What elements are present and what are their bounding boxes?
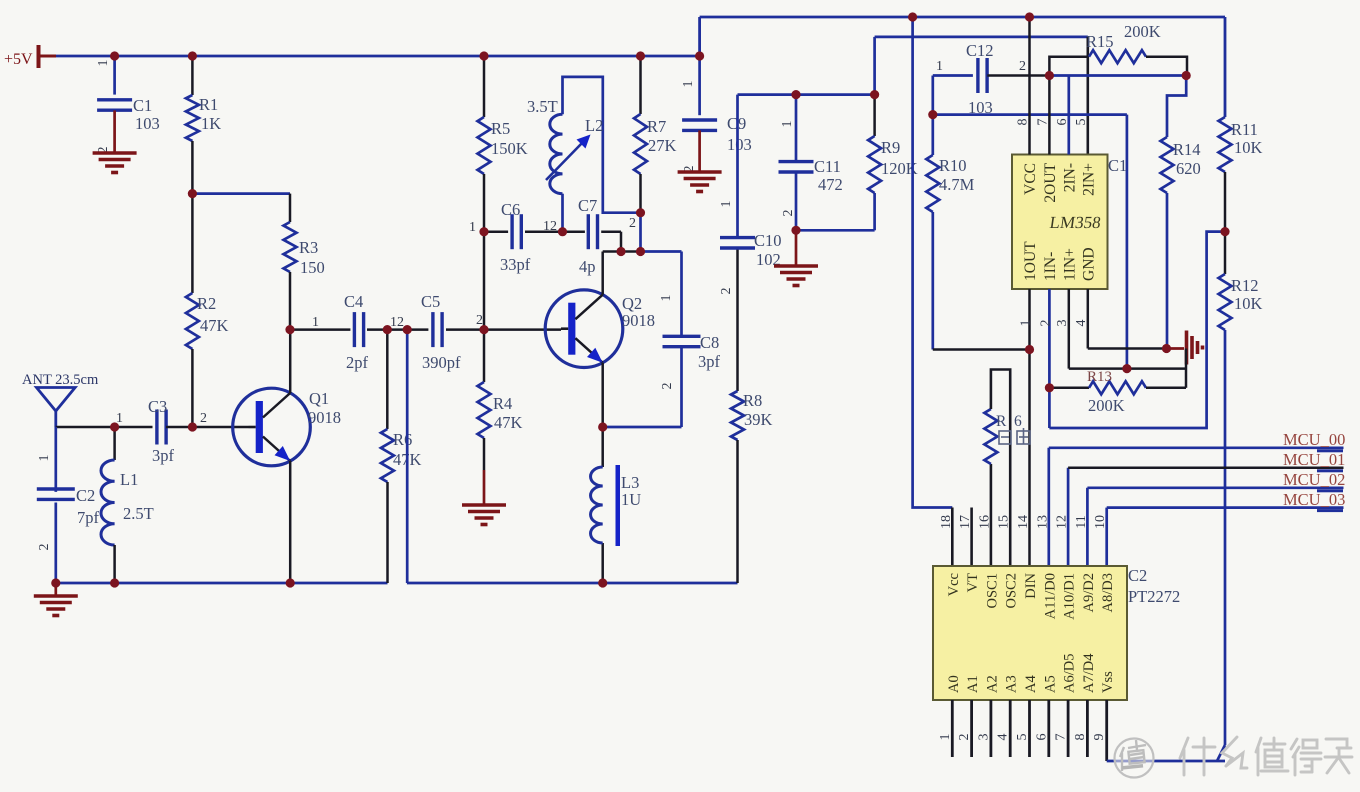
svg-text:200K: 200K (1124, 22, 1161, 41)
svg-text:14: 14 (1016, 515, 1031, 529)
svg-text:R11: R11 (1231, 120, 1258, 139)
junction at 192.4,427 (188, 422, 197, 431)
svg-text:1: 1 (780, 121, 795, 128)
resistor R1 (186, 56, 221, 194)
ground at C1 (93, 153, 137, 173)
junction at 699.6,56 (695, 51, 704, 60)
inductor L1 (101, 427, 154, 583)
junction at 407.2,329.6 (403, 325, 412, 334)
junction at 640.5,212.7 (636, 208, 645, 217)
svg-text:3: 3 (976, 734, 991, 741)
R16 value label (999, 428, 1030, 444)
svg-text:3pf: 3pf (152, 446, 175, 465)
svg-text:472: 472 (818, 175, 843, 194)
svg-text:OSC2: OSC2 (1004, 573, 1020, 608)
junction at 602.7,427 (598, 422, 607, 431)
svg-text:1U: 1U (621, 490, 641, 509)
svg-text:390pf: 390pf (422, 353, 461, 372)
junction at 192.4,193.6 (188, 189, 197, 198)
svg-text:10K: 10K (1234, 138, 1263, 157)
svg-text:47K: 47K (494, 413, 523, 432)
inductor L3 (591, 465, 642, 546)
svg-text:2: 2 (200, 411, 207, 426)
capacitor C6 (469, 200, 557, 274)
svg-text:6: 6 (1034, 734, 1049, 741)
svg-text:10: 10 (1093, 515, 1108, 529)
svg-text:C2: C2 (1128, 566, 1147, 585)
svg-text:2: 2 (957, 734, 972, 741)
junction at 796,230.3 (791, 226, 800, 235)
wire Q2 emitter (601, 363, 604, 583)
svg-text:A10/D1: A10/D1 (1062, 573, 1078, 620)
svg-text:MCU_00: MCU_00 (1283, 430, 1345, 449)
junction at 55.8,583 (51, 578, 60, 587)
svg-text:Q1: Q1 (309, 389, 329, 408)
junction at 1049.4,75.5 (1045, 71, 1054, 80)
LM358 pin 2 wire (1039, 289, 1054, 428)
svg-text:103: 103 (135, 114, 160, 133)
svg-text:1: 1 (936, 59, 943, 74)
wire Q2 collector (603, 252, 682, 295)
junction at 796,94.6 (791, 90, 800, 99)
wire ground rail left (56, 582, 388, 585)
svg-text:A9/D2: A9/D2 (1081, 573, 1097, 612)
resistor R13 (1049, 349, 1186, 416)
PT2272 pin 17 stub (970, 508, 973, 567)
svg-text:7: 7 (1054, 734, 1069, 741)
svg-text:DIN: DIN (1023, 572, 1039, 598)
PT2272 pin 11 wire / net MCU_02 (1087, 470, 1345, 566)
resistor R7 (634, 56, 677, 213)
svg-text:2IN-: 2IN- (1061, 163, 1078, 192)
ground at R4 (462, 505, 506, 525)
svg-text:2.5T: 2.5T (123, 504, 154, 523)
transistor Q1 (233, 388, 341, 466)
op-amp U1 LM358 (1012, 155, 1127, 290)
resistor R4 (478, 330, 523, 505)
LM358 pin 6 wire (1055, 76, 1070, 155)
svg-text:C4: C4 (344, 292, 363, 311)
svg-text:4.7M: 4.7M (939, 175, 975, 194)
wire R7 node down (639, 213, 642, 252)
svg-text:R12: R12 (1231, 276, 1259, 295)
wire Q2 base row (290, 328, 561, 331)
svg-text:6: 6 (1055, 119, 1070, 126)
svg-text:33pf: 33pf (500, 255, 531, 274)
wire 1IN- feedback loop (1049, 232, 1225, 428)
LM358 pin 1 wire to PT2272 DIN (1019, 289, 1034, 566)
svg-text:18: 18 (939, 515, 954, 529)
wire R5 node to base node (483, 232, 486, 330)
decoder U2 PT2272 (933, 566, 1180, 700)
svg-text:A7/D4: A7/D4 (1081, 653, 1097, 693)
LM358 pin 8 wire (1016, 17, 1031, 155)
svg-text:1: 1 (37, 455, 52, 462)
wire C11 to R9 bottom (796, 193, 875, 266)
resistor R11 (1219, 17, 1263, 232)
junction at 1049.4,387.8 (1045, 383, 1054, 392)
junction at 1166.5,348.5 (1162, 344, 1171, 353)
svg-text:150: 150 (300, 258, 325, 277)
junction at 874.6,94.6 (870, 90, 879, 99)
svg-text:2: 2 (1019, 59, 1026, 74)
svg-text:C12: C12 (966, 41, 994, 60)
svg-text:R9: R9 (881, 138, 900, 157)
svg-text:Vcc: Vcc (946, 573, 962, 596)
svg-text:103: 103 (968, 98, 993, 117)
svg-text:1: 1 (659, 295, 674, 302)
junction at 192.4,56 (188, 51, 197, 60)
svg-text:39K: 39K (744, 410, 773, 429)
svg-text:16: 16 (977, 515, 992, 529)
LM358 pin 4 wire (1074, 289, 1184, 349)
svg-text:R10: R10 (939, 156, 967, 175)
svg-text:C10: C10 (754, 231, 782, 250)
svg-text:1IN-: 1IN- (1042, 252, 1059, 281)
svg-text:27K: 27K (648, 136, 677, 155)
junction at 912.6,17 (908, 12, 917, 21)
svg-text:2: 2 (1039, 320, 1054, 327)
svg-text:R4: R4 (493, 394, 512, 413)
svg-text:C3: C3 (148, 397, 167, 416)
svg-text:R3: R3 (299, 238, 318, 257)
svg-text:VT: VT (965, 573, 981, 592)
resistor R2 (186, 194, 229, 427)
capacitor C9 (681, 56, 752, 173)
wire C12 to R15 node row (1049, 74, 1186, 77)
capacitor C5 (421, 292, 483, 372)
svg-text:GND: GND (1080, 247, 1097, 281)
capacitor C11 (779, 95, 843, 231)
svg-text:PT2272: PT2272 (1128, 587, 1180, 606)
svg-text:R6: R6 (393, 430, 412, 449)
svg-text:L2: L2 (585, 116, 603, 135)
svg-text:A3: A3 (1004, 675, 1020, 693)
svg-text:10K: 10K (1234, 294, 1263, 313)
capacitor C10 (719, 95, 782, 295)
junction at 602.7,583 (598, 578, 607, 587)
wire C6 C7 row (484, 232, 621, 252)
junction at 290.2,583 (286, 578, 295, 587)
svg-text:R13: R13 (1087, 369, 1112, 385)
svg-text:7pf: 7pf (77, 508, 100, 527)
junction at 640.5,251.5 (636, 247, 645, 256)
ground at left rail (34, 583, 78, 616)
capacitor C2 (37, 427, 100, 583)
svg-text:Vss: Vss (1100, 671, 1116, 693)
wire Q1 emitter (289, 461, 292, 583)
svg-text:C1: C1 (133, 96, 152, 115)
svg-text:1: 1 (312, 315, 319, 330)
resistor R16 (984, 370, 1022, 567)
wire R10 top row (933, 115, 1127, 369)
svg-text:1: 1 (96, 60, 111, 67)
capacitor C8 (603, 252, 721, 428)
junction at 290,329.6 (285, 325, 294, 334)
svg-text:1: 1 (469, 220, 476, 235)
wire R10 bottom to 1OUT (933, 348, 1030, 351)
ground at C9 (678, 172, 722, 192)
junction at 621,251.5 (616, 247, 625, 256)
wire C10 C11 R9 row (738, 93, 875, 96)
junction at 1029.5,349.5 (1025, 345, 1034, 354)
wire Vss to R12 (1107, 760, 1225, 763)
svg-text:1K: 1K (201, 114, 221, 133)
LM358 pin 3 wire (1055, 289, 1186, 369)
svg-text:5: 5 (1074, 119, 1089, 126)
wire R1 to R3 (192, 192, 290, 195)
svg-text:A5: A5 (1042, 675, 1058, 693)
svg-text:47K: 47K (200, 316, 229, 335)
svg-text:12: 12 (543, 219, 557, 234)
svg-text:R8: R8 (743, 391, 762, 410)
svg-text:R5: R5 (491, 119, 510, 138)
svg-text:2: 2 (719, 288, 734, 295)
junction at 1029.5,17 (1025, 12, 1034, 21)
antenna ANT 23.5cm (22, 372, 99, 427)
capacitor C4 (312, 292, 404, 372)
PT2272 pin 12 wire / net MCU_01 (1068, 450, 1345, 566)
svg-text:12: 12 (390, 315, 404, 330)
junction at 1225,231.6 (1220, 227, 1229, 236)
junction at 562.5,231.7 (558, 227, 567, 236)
wire ground rail right (407, 330, 738, 583)
svg-text:A8/D3: A8/D3 (1100, 573, 1116, 612)
wire +5V rail (56, 55, 700, 58)
svg-text:R: R (996, 413, 1007, 430)
svg-text:1IN+: 1IN+ (1061, 248, 1078, 281)
svg-text:3.5T: 3.5T (527, 97, 558, 116)
svg-text:C8: C8 (700, 333, 719, 352)
svg-text:A6/D5: A6/D5 (1062, 654, 1078, 693)
svg-text:1: 1 (681, 81, 696, 88)
watermark text (1180, 737, 1352, 775)
wire bias rail to 2IN+ (875, 37, 1088, 155)
svg-text:A11/D0: A11/D0 (1042, 573, 1058, 619)
junction at 484,56 (479, 51, 488, 60)
svg-text:4p: 4p (579, 257, 596, 276)
svg-text:OSC1: OSC1 (984, 573, 1000, 608)
svg-text:LM358: LM358 (1048, 213, 1102, 232)
svg-text:2pf: 2pf (346, 353, 369, 372)
svg-text:C11: C11 (814, 157, 841, 176)
PT2272 pin 13 wire / net MCU_00 (1049, 430, 1346, 566)
svg-text:11: 11 (1074, 515, 1089, 528)
svg-text:A1: A1 (965, 675, 981, 693)
svg-text:15: 15 (997, 515, 1012, 529)
svg-text:MCU_03: MCU_03 (1283, 490, 1345, 509)
resistor R3 (284, 194, 325, 330)
svg-text:9018: 9018 (622, 311, 655, 330)
power +5V terminal (4, 45, 56, 68)
ground at LM358 pin 4 (1187, 331, 1203, 365)
PT2272 bottom pins (938, 700, 1107, 761)
svg-text:2: 2 (37, 544, 52, 551)
svg-text:2: 2 (629, 216, 636, 231)
svg-text:2OUT: 2OUT (1042, 162, 1059, 202)
LM358 pin 7 wire (1036, 76, 1051, 155)
svg-text:103: 103 (727, 135, 752, 154)
junction at 114.6,427 (110, 422, 119, 431)
junction at 640.5,56 (636, 51, 645, 60)
watermark logo (1115, 739, 1154, 778)
svg-text:4: 4 (996, 734, 1011, 741)
svg-text:R1: R1 (199, 95, 218, 114)
svg-text:R14: R14 (1173, 140, 1201, 159)
svg-text:1: 1 (1019, 320, 1034, 327)
junction at 1186.2,75.5 (1182, 71, 1191, 80)
junction at 932.8,114.6 (928, 110, 937, 119)
svg-text:6: 6 (1014, 413, 1022, 430)
svg-text:C2: C2 (76, 486, 95, 505)
svg-text:1OUT: 1OUT (1022, 241, 1039, 281)
resistor R9 (868, 95, 918, 193)
PT2272 top pin numbers (939, 515, 1108, 529)
resistor R8 (731, 248, 773, 583)
svg-text:1: 1 (719, 201, 734, 208)
svg-text:2: 2 (781, 210, 796, 217)
capacitor C12 (933, 41, 1050, 117)
svg-text:A2: A2 (984, 675, 1000, 693)
svg-text:C7: C7 (578, 196, 597, 215)
svg-text:R7: R7 (647, 117, 666, 136)
wire Vcc line to PT2272 pin 18 (913, 17, 953, 566)
PT2272 pin 10 wire / net MCU_03 (1107, 490, 1346, 566)
junction at 484,231.7 (479, 227, 488, 236)
junction at 114.6,583 (110, 578, 119, 587)
wire antenna row (56, 426, 153, 429)
svg-text:17: 17 (958, 515, 973, 529)
svg-text:1: 1 (938, 734, 953, 741)
resistor R10 (926, 115, 974, 350)
svg-text:C6: C6 (501, 200, 520, 219)
capacitor C3 (116, 397, 207, 465)
capacitor C7 (578, 196, 636, 276)
svg-text:5: 5 (1015, 734, 1030, 741)
resistor R6 (381, 330, 422, 583)
resistor R12 (1217, 232, 1263, 761)
svg-text:C5: C5 (421, 292, 440, 311)
resistor R14 (1161, 76, 1201, 349)
svg-text:VCC: VCC (1022, 163, 1039, 195)
capacitor C1 (96, 56, 160, 154)
svg-text:4: 4 (1074, 320, 1089, 327)
svg-text:8: 8 (1016, 119, 1031, 126)
ground at C11 (774, 266, 818, 286)
svg-text:3pf: 3pf (698, 352, 721, 371)
svg-text:L1: L1 (120, 470, 138, 489)
svg-text:200K: 200K (1088, 396, 1125, 415)
svg-text:8: 8 (1073, 734, 1088, 741)
svg-text:R2: R2 (197, 294, 216, 313)
svg-text:+5V: +5V (4, 51, 33, 68)
svg-text:ANT 23.5cm: ANT 23.5cm (22, 372, 99, 388)
svg-text:A4: A4 (1023, 675, 1039, 693)
junction at 114.6,56 (110, 51, 119, 60)
svg-text:R15: R15 (1086, 32, 1114, 51)
svg-text:MCU_02: MCU_02 (1283, 470, 1345, 489)
svg-text:A0: A0 (946, 675, 962, 693)
wire Q1 collector (289, 330, 292, 393)
svg-text:2: 2 (660, 383, 675, 390)
svg-text:150K: 150K (491, 139, 528, 158)
wire C3 to Q1 base (171, 426, 249, 429)
inductor L2 (527, 77, 641, 232)
transistor Q2 (545, 290, 655, 368)
resistor R5 (478, 56, 528, 232)
junction at 1126.9,368.6 (1122, 364, 1131, 373)
svg-text:C1: C1 (1108, 156, 1127, 175)
svg-text:12: 12 (1055, 515, 1070, 529)
svg-text:13: 13 (1035, 515, 1050, 529)
LM358 pin 5 label (1074, 119, 1089, 126)
junction at 484,329.6 (479, 325, 488, 334)
svg-text:9018: 9018 (308, 408, 341, 427)
resistor R15 (1049, 22, 1187, 76)
junction at 387.3,329.6 (383, 325, 392, 334)
svg-text:7: 7 (1036, 119, 1051, 126)
svg-text:9: 9 (1092, 734, 1107, 741)
svg-text:3: 3 (1055, 320, 1070, 327)
svg-text:MCU_01: MCU_01 (1283, 450, 1345, 469)
svg-text:620: 620 (1176, 159, 1201, 178)
svg-text:2IN+: 2IN+ (1080, 163, 1097, 196)
wire top rail (700, 17, 1225, 56)
